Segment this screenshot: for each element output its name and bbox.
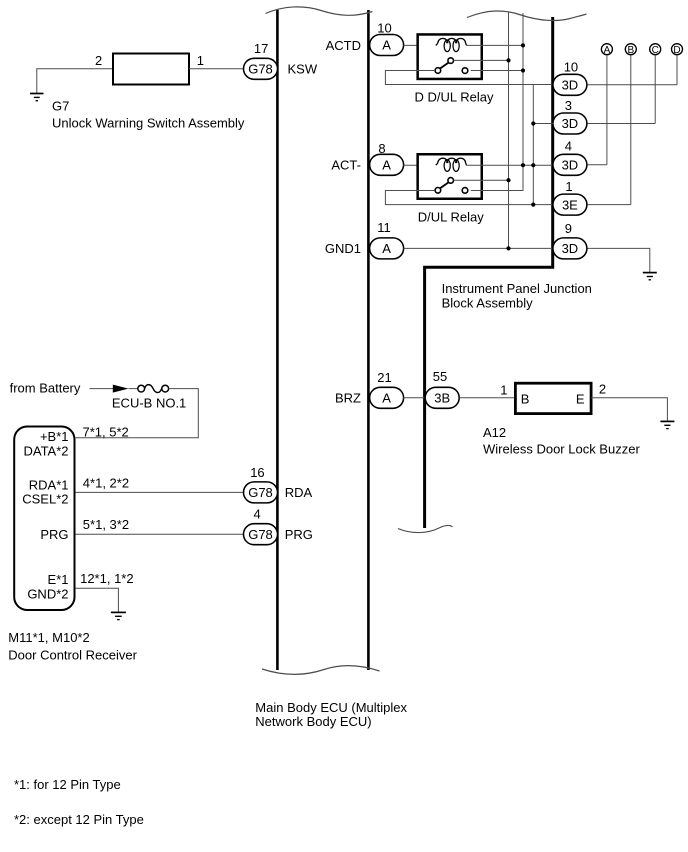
svg-text:from Battery: from Battery <box>10 381 81 396</box>
svg-text:G78: G78 <box>248 62 273 77</box>
svg-text:G78: G78 <box>248 485 273 500</box>
svg-text:Wireless Door Lock Buzzer: Wireless Door Lock Buzzer <box>483 441 640 456</box>
svg-text:4*1, 2*2: 4*1, 2*2 <box>83 475 129 490</box>
svg-text:PRG: PRG <box>40 527 68 542</box>
svg-text:12*1, 1*2: 12*1, 1*2 <box>80 571 134 586</box>
svg-text:3B: 3B <box>434 391 450 406</box>
svg-text:2: 2 <box>95 53 102 68</box>
svg-text:4: 4 <box>254 506 261 521</box>
svg-text:A: A <box>382 38 391 53</box>
svg-text:D: D <box>673 45 680 56</box>
svg-text:E*1: E*1 <box>48 572 69 587</box>
svg-text:D D/UL Relay: D D/UL Relay <box>415 90 494 105</box>
svg-text:1: 1 <box>565 179 572 194</box>
svg-text:G78: G78 <box>248 527 273 542</box>
svg-text:B: B <box>521 391 530 406</box>
svg-text:11: 11 <box>377 220 391 235</box>
svg-text:CSEL*2: CSEL*2 <box>22 492 68 507</box>
svg-text:BRZ: BRZ <box>335 391 361 406</box>
svg-text:5*1, 3*2: 5*1, 3*2 <box>83 517 129 532</box>
svg-text:*2: except 12 Pin Type: *2: except 12 Pin Type <box>14 812 144 827</box>
svg-text:Main Body ECU (Multiplex: Main Body ECU (Multiplex <box>255 700 407 715</box>
svg-text:1: 1 <box>500 382 507 397</box>
svg-text:3E: 3E <box>562 197 578 212</box>
svg-text:*1: for 12 Pin Type: *1: for 12 Pin Type <box>14 777 121 792</box>
svg-text:GND1: GND1 <box>325 241 361 256</box>
svg-text:A: A <box>382 158 391 173</box>
svg-text:DATA*2: DATA*2 <box>23 444 68 459</box>
svg-text:Unlock Warning Switch Assembly: Unlock Warning Switch Assembly <box>52 115 245 130</box>
svg-text:A12: A12 <box>483 425 506 440</box>
svg-text:10: 10 <box>377 20 391 35</box>
svg-text:B: B <box>627 45 634 56</box>
svg-text:3: 3 <box>565 98 572 113</box>
svg-text:C: C <box>652 45 659 56</box>
svg-text:G7: G7 <box>52 99 69 114</box>
svg-text:3D: 3D <box>562 241 579 256</box>
svg-text:Network Body ECU): Network Body ECU) <box>255 714 371 729</box>
svg-text:Door Control Receiver: Door Control Receiver <box>8 647 137 662</box>
svg-text:ACT-: ACT- <box>331 158 361 173</box>
svg-text:ECU-B NO.1: ECU-B NO.1 <box>112 395 186 410</box>
svg-text:RDA: RDA <box>285 485 313 500</box>
svg-text:7*1, 5*2: 7*1, 5*2 <box>83 425 129 440</box>
svg-text:55: 55 <box>433 369 447 384</box>
svg-text:+B*1: +B*1 <box>40 429 69 444</box>
svg-text:3D: 3D <box>562 78 579 93</box>
svg-text:9: 9 <box>565 221 572 236</box>
svg-text:1: 1 <box>197 53 204 68</box>
svg-text:KSW: KSW <box>288 62 318 77</box>
svg-text:2: 2 <box>599 382 606 397</box>
svg-text:16: 16 <box>250 465 264 480</box>
svg-text:Block Assembly: Block Assembly <box>442 295 534 310</box>
svg-text:ACTD: ACTD <box>326 38 361 53</box>
svg-text:D/UL Relay: D/UL Relay <box>418 209 484 224</box>
svg-text:8: 8 <box>378 141 385 156</box>
svg-text:A: A <box>604 45 611 56</box>
svg-text:4: 4 <box>565 139 572 154</box>
svg-text:E: E <box>576 391 585 406</box>
svg-text:10: 10 <box>564 59 578 74</box>
svg-text:GND*2: GND*2 <box>27 587 68 602</box>
svg-text:17: 17 <box>254 41 268 56</box>
svg-text:3D: 3D <box>562 158 579 173</box>
svg-text:3D: 3D <box>562 116 579 131</box>
svg-text:Instrument Panel Junction: Instrument Panel Junction <box>442 281 592 296</box>
svg-text:21: 21 <box>377 370 391 385</box>
svg-text:RDA*1: RDA*1 <box>29 477 69 492</box>
svg-text:M11*1, M10*2: M11*1, M10*2 <box>8 630 89 645</box>
svg-text:A: A <box>382 241 391 256</box>
svg-text:PRG: PRG <box>285 527 313 542</box>
svg-text:A: A <box>382 391 391 406</box>
